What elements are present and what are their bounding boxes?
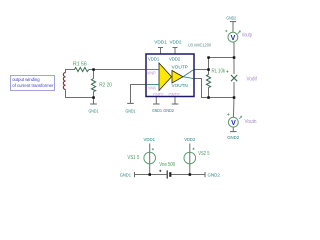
svg-text:GND2: GND2 bbox=[163, 108, 174, 113]
svg-text:VDD2: VDD2 bbox=[169, 57, 181, 62]
svg-text:GND1: GND1 bbox=[89, 108, 99, 113]
svg-text:VDD2: VDD2 bbox=[184, 137, 195, 142]
svg-text:GND1: GND1 bbox=[153, 92, 164, 97]
svg-text:R2 20: R2 20 bbox=[99, 83, 112, 89]
svg-text:VS1 5: VS1 5 bbox=[127, 155, 139, 161]
svg-text:GND1: GND1 bbox=[120, 172, 132, 177]
svg-text:VDD1: VDD1 bbox=[154, 39, 167, 44]
svg-text:GND2: GND2 bbox=[227, 135, 239, 140]
svg-text:VINN: VINN bbox=[148, 86, 156, 91]
svg-text:GND1: GND1 bbox=[126, 108, 136, 113]
svg-text:VDD2: VDD2 bbox=[170, 39, 182, 44]
svg-text:RL 10k: RL 10k bbox=[212, 68, 226, 74]
svg-text:R1 56: R1 56 bbox=[73, 62, 87, 68]
svg-text:of current transformer: of current transformer bbox=[12, 83, 54, 88]
svg-text:V: V bbox=[231, 35, 236, 42]
svg-text:VDD1: VDD1 bbox=[148, 57, 160, 62]
svg-text:Voutn: Voutn bbox=[245, 119, 257, 125]
svg-text:U3 AMC1200: U3 AMC1200 bbox=[188, 43, 211, 48]
svg-text:Vne 500: Vne 500 bbox=[159, 162, 175, 168]
svg-text:GND2: GND2 bbox=[208, 173, 221, 178]
svg-text:output winding: output winding bbox=[12, 77, 40, 82]
svg-text:GND2: GND2 bbox=[226, 16, 236, 21]
svg-text:GND2: GND2 bbox=[169, 92, 181, 97]
svg-text:GND1: GND1 bbox=[152, 108, 162, 113]
svg-text:Voutp: Voutp bbox=[242, 32, 253, 38]
svg-text:VOUTP: VOUTP bbox=[172, 65, 188, 70]
svg-text:VDD1: VDD1 bbox=[144, 137, 156, 142]
svg-text:VOUTN: VOUTN bbox=[172, 83, 188, 88]
svg-text:VS2 5: VS2 5 bbox=[198, 151, 209, 157]
svg-text:Vodif: Vodif bbox=[247, 77, 258, 83]
svg-text:VINP: VINP bbox=[147, 71, 156, 76]
svg-text:V: V bbox=[231, 120, 236, 127]
